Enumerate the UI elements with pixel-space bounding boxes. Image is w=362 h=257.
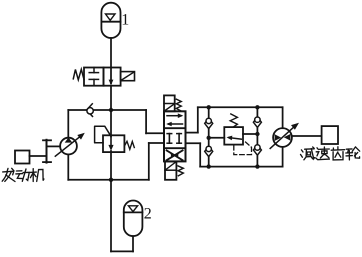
svg-text:1: 1 bbox=[121, 11, 129, 28]
svg-text:2: 2 bbox=[144, 205, 152, 222]
